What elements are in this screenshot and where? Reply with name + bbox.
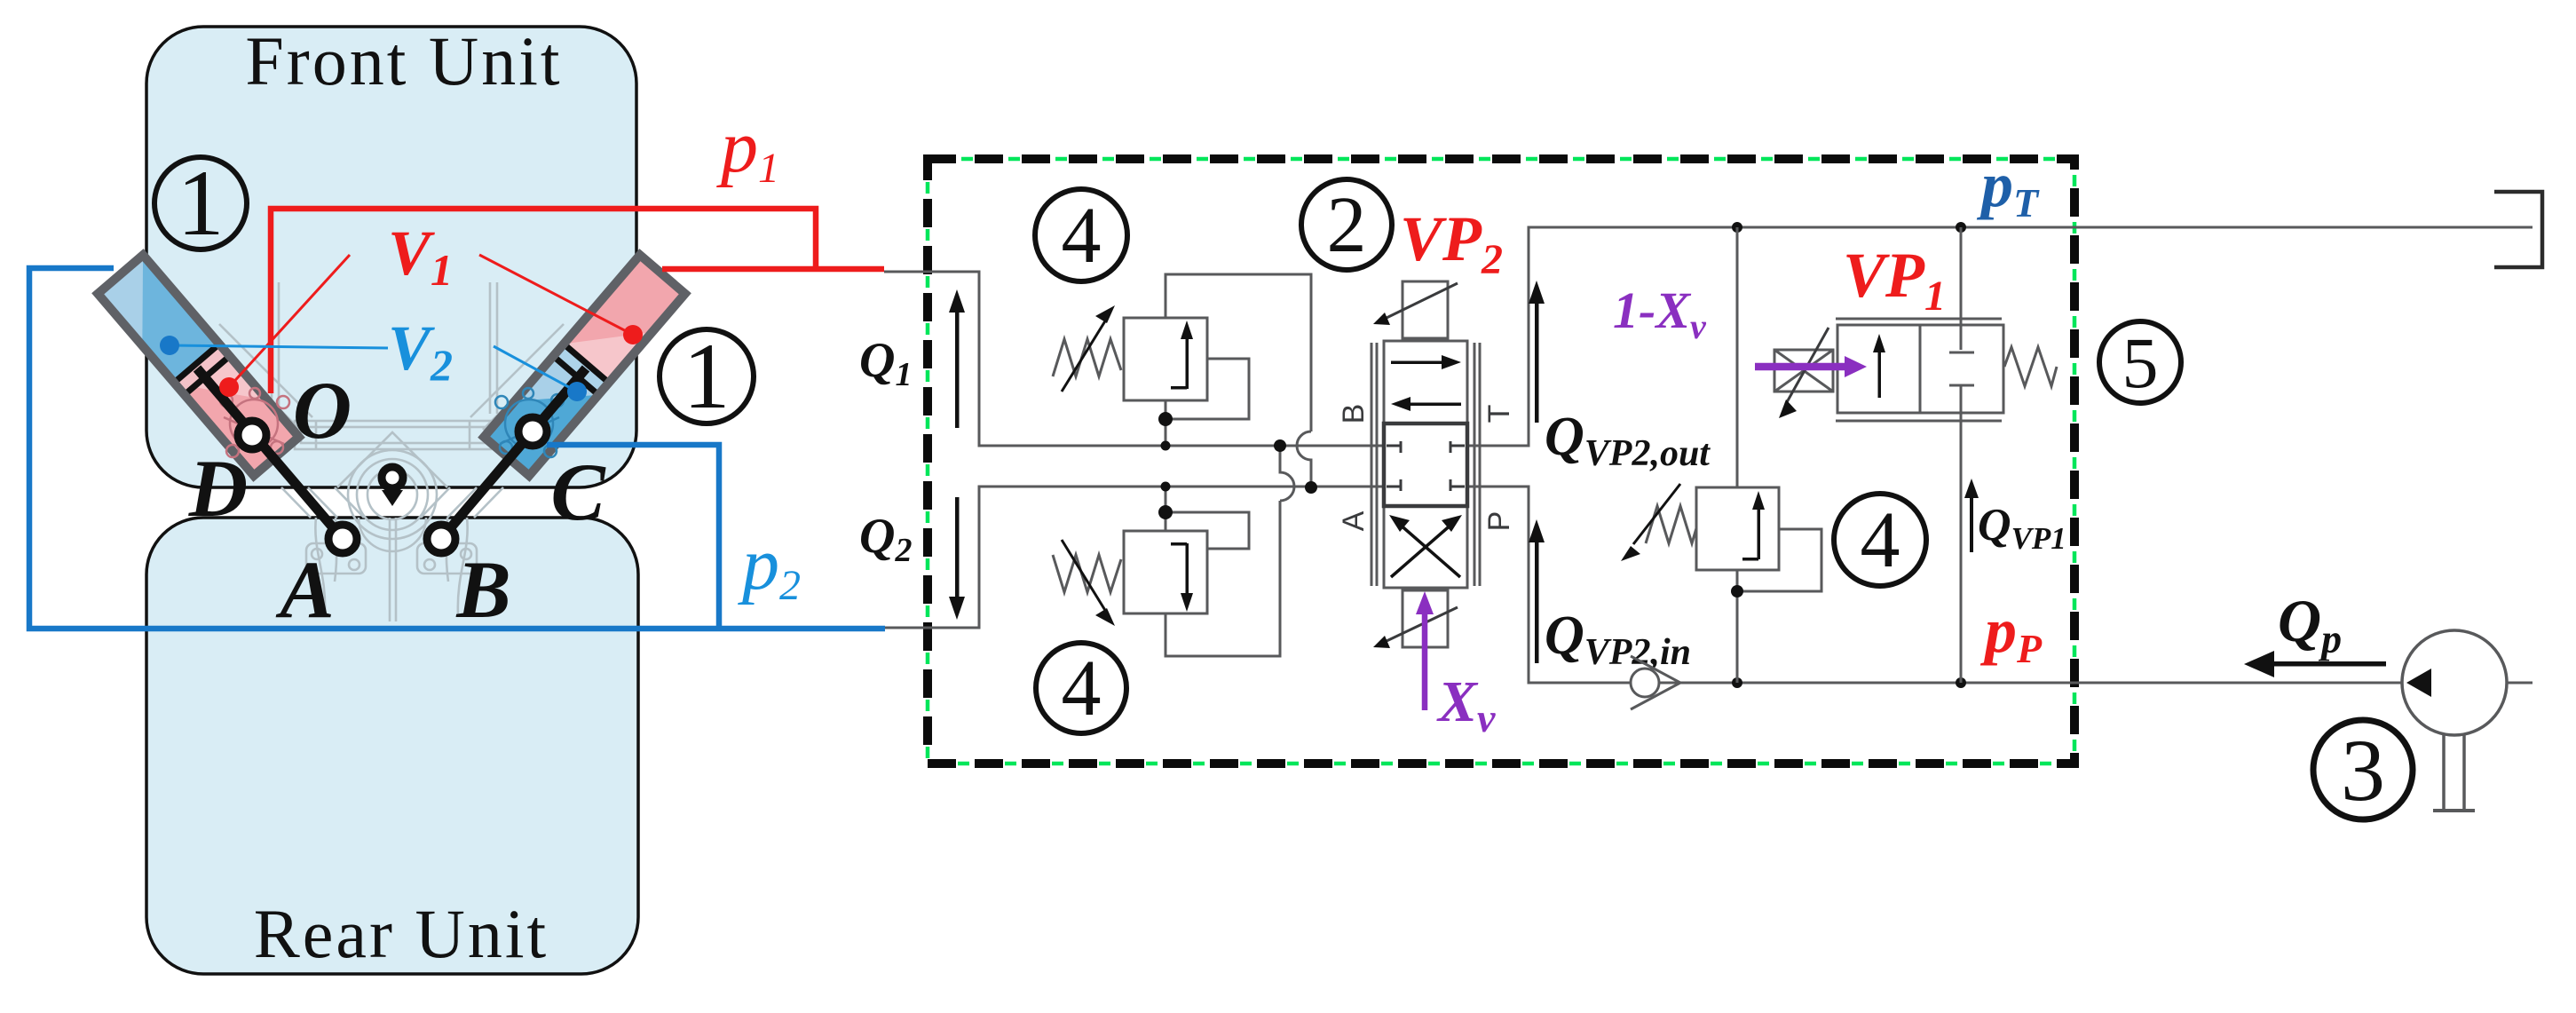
P wire to pP xyxy=(1467,487,2402,683)
ledge bridge xyxy=(295,421,491,449)
rear unit box xyxy=(146,518,638,974)
Q_VP1 arrow xyxy=(1964,479,1979,552)
svg-text:A: A xyxy=(275,544,334,635)
RV1 spring xyxy=(1053,339,1121,376)
solenoid diagonals xyxy=(1387,283,1458,318)
mechanism gray linework xyxy=(207,282,576,621)
svg-text:4: 4 xyxy=(1062,192,1102,280)
right fork xyxy=(458,518,468,614)
node RV2 inlet on A line xyxy=(1161,482,1171,492)
svg-text:3: 3 xyxy=(2341,721,2385,819)
svg-text:5: 5 xyxy=(2122,322,2159,403)
right arm xyxy=(470,324,564,417)
circled 1 left xyxy=(154,157,247,249)
circled 2 xyxy=(1301,179,1392,270)
svg-text:D: D xyxy=(188,443,248,534)
posts xyxy=(271,282,273,414)
band diagonals xyxy=(281,487,311,518)
check valve CV1 on pP line xyxy=(1631,669,1659,697)
svg-text:C: C xyxy=(550,447,606,537)
svg-text:1: 1 xyxy=(684,324,731,428)
solenoid boxes xyxy=(1403,281,1448,338)
Q2 channel xyxy=(885,487,1384,628)
middle cell (closed centre) xyxy=(1384,423,1467,506)
svg-text:B: B xyxy=(455,544,510,635)
RV1 pilot loop xyxy=(1166,359,1249,419)
RV2 pilot loop xyxy=(1166,512,1249,549)
pump P1 (callout 3) xyxy=(2402,630,2507,735)
svg-text:2: 2 xyxy=(1327,181,1367,269)
svg-text:O: O xyxy=(293,365,352,455)
RV2 body xyxy=(1124,531,1207,613)
RV2 flow arrow xyxy=(1171,542,1193,612)
body cells xyxy=(1384,341,1467,423)
RV1 flow arrow xyxy=(1171,321,1193,390)
front unit box xyxy=(146,27,636,487)
RV3 flow arrow xyxy=(1742,491,1765,561)
RV2 adjustment arrow xyxy=(1062,540,1106,612)
left fork xyxy=(315,518,325,614)
node RV3 pilot junction xyxy=(1731,585,1743,598)
V frame inner edge xyxy=(337,432,447,487)
right cylinder flange decoration xyxy=(495,388,564,457)
Q2 arrow xyxy=(949,497,965,620)
node RV2 pilot junction xyxy=(1158,505,1173,519)
svg-text:4: 4 xyxy=(1062,645,1102,732)
VP1 command purple arrow xyxy=(1755,363,1848,371)
svg-text:Rear Unit: Rear Unit xyxy=(254,895,549,972)
circled 4 lower-left xyxy=(1036,643,1126,733)
svg-text:1: 1 xyxy=(178,151,225,255)
RV3 adjustment arrow xyxy=(1633,484,1680,544)
svg-text:A: A xyxy=(1337,510,1371,531)
black dashed frame xyxy=(928,159,2074,764)
left hydropneumatic cylinder (unit 1) xyxy=(98,255,299,476)
left arm xyxy=(219,324,312,417)
V2 pointer lines xyxy=(170,345,388,348)
Qp arrow xyxy=(2265,661,2386,667)
circled 1 right xyxy=(660,329,754,423)
RV1 body xyxy=(1124,318,1207,400)
RV3 spring xyxy=(1646,506,1696,543)
pivot O ring xyxy=(382,467,403,488)
RV1 adjustment arrow xyxy=(1062,320,1106,392)
piston rod right xyxy=(441,368,586,539)
V1 pointer lines xyxy=(229,255,350,387)
tank T1 xyxy=(2494,192,2542,267)
circled 5 xyxy=(2099,321,2181,403)
Q_VP2,out arrow xyxy=(1529,281,1545,423)
pump outlet stub xyxy=(2507,682,2533,685)
right hydropneumatic cylinder (unit 1) xyxy=(484,255,685,476)
relief valve RV3 (callout 4, system relief pP to pT) xyxy=(1646,227,1821,683)
Q1 channel xyxy=(884,272,1384,446)
pin C xyxy=(518,417,547,446)
svg-text:P: P xyxy=(1482,511,1516,532)
Xv command arrow xyxy=(1422,611,1428,710)
svg-text:T: T xyxy=(1482,405,1516,423)
wire p1 red xyxy=(271,209,884,393)
Q1 arrow xyxy=(949,289,965,428)
node RV1 pilot junction xyxy=(1158,412,1173,426)
RV3 pilot loop xyxy=(1737,529,1821,591)
node RV2 outlet on B line xyxy=(1274,439,1286,452)
bracket arc under pivot xyxy=(359,518,426,551)
pin B xyxy=(427,525,455,553)
center seam xyxy=(389,518,391,621)
circled 4 upper-left xyxy=(1035,189,1127,281)
node pT-RV3 junction xyxy=(1732,222,1742,233)
wire hop over B line xyxy=(1297,431,1311,487)
wire RV2 inlet from A line xyxy=(1165,487,1167,531)
wire RV1 outlet to A line xyxy=(1166,274,1311,431)
pin A xyxy=(328,525,357,553)
gray hydraulic wires xyxy=(884,227,2533,683)
svg-text:B: B xyxy=(1337,404,1371,424)
circled 4 right xyxy=(1834,494,1926,586)
node pP-RV3 junction xyxy=(1732,677,1742,688)
Q_VP2,in arrow xyxy=(1529,519,1545,663)
node pP-VP1 junction xyxy=(1956,677,1966,688)
T wire to pT xyxy=(1467,227,2533,446)
node RV1 outlet on A line xyxy=(1305,481,1317,494)
wire RV3 inlet from pP xyxy=(1736,570,1739,683)
rails xyxy=(1371,343,1373,586)
proportional directional valve VP2 (callout 2) xyxy=(1371,281,1480,647)
relief valve RV2 (callout 4, relieves p2 to p1) xyxy=(1053,446,1294,656)
VP1 solenoid adjustment arrow xyxy=(1787,328,1829,402)
bottom cell crossed arrows xyxy=(1391,523,1453,577)
VP1 internal arrow xyxy=(1873,334,1885,398)
svg-text:Front Unit: Front Unit xyxy=(245,22,562,99)
RV2 spring xyxy=(1053,555,1121,592)
node pT-VP1 junction xyxy=(1956,222,1966,233)
wire RV1 inlet from B line xyxy=(1165,400,1167,446)
relief valve RV1 (callout 4, relieves p1 to p2) xyxy=(1053,274,1311,487)
pin D xyxy=(238,421,266,449)
wire RV3 outlet to pT xyxy=(1736,227,1739,487)
green dashed frame xyxy=(928,159,2074,764)
left cylinder flange decoration xyxy=(220,388,289,457)
svg-text:4: 4 xyxy=(1861,496,1900,584)
RV3 body xyxy=(1696,487,1779,570)
wire RV2 outlet to B line xyxy=(1166,501,1280,656)
node RV1 inlet on B line xyxy=(1161,441,1171,451)
circled 3 xyxy=(2313,720,2413,819)
wire p2 blue xyxy=(29,268,885,629)
top cell arrows xyxy=(1391,355,1461,411)
pivot housing circles xyxy=(348,450,437,539)
wire hop over A line xyxy=(1280,446,1294,501)
piston rod left xyxy=(197,368,343,539)
